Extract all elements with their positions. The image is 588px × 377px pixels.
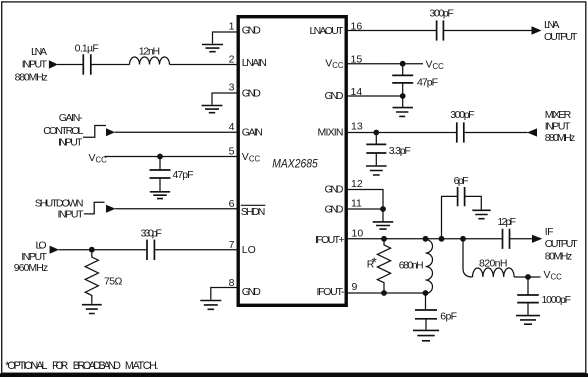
svg-text:6: 6 — [229, 198, 235, 210]
wire C8 to ground — [465, 196, 482, 209]
svg-text:*OPTIONAL: *OPTIONAL — [5, 360, 47, 372]
wire C11 to ground — [527, 303, 529, 315]
capacitor C9 6pF — [415, 310, 437, 319]
svg-text:GND: GND — [242, 286, 261, 298]
capacitor C1 0.1uF — [83, 54, 91, 74]
wire L1 to pin 2 LNAIN — [170, 64, 239, 66]
node L3 Vcc junction — [525, 274, 531, 280]
svg-text:47pF: 47pF — [417, 76, 438, 88]
wire C6 branch down — [375, 133, 377, 145]
svg-text:9: 9 — [352, 281, 358, 293]
ground G4 (C2) — [150, 192, 170, 199]
ground G11 (C9) — [413, 330, 439, 340]
capacitor C3 330pF — [147, 240, 154, 260]
wire shutdown input to pin 6 — [84, 202, 238, 214]
wire pin11 GND — [346, 209, 383, 221]
capacitor C6 3.3pF — [366, 144, 386, 153]
svg-text:GAIN: GAIN — [242, 127, 263, 139]
svg-text:LNAIN: LNAIN — [242, 57, 267, 69]
wire C11 branch down — [527, 277, 529, 295]
svg-text:13: 13 — [351, 121, 363, 133]
svg-text:47pF: 47pF — [173, 169, 194, 181]
svg-text:MATCH.: MATCH. — [125, 360, 159, 372]
svg-text:LNAOUT: LNAOUT — [310, 25, 345, 37]
svg-text:INPUT: INPUT — [22, 59, 48, 71]
ground G10 (C11) — [516, 316, 540, 325]
svg-text:300pF: 300pF — [430, 7, 454, 19]
wire gain-control input to pin 4 — [83, 126, 238, 138]
svg-text:SHDN: SHDN — [241, 206, 265, 218]
svg-text:OUTPUT: OUTPUT — [544, 31, 578, 43]
ground G1 (pin 1) — [202, 45, 223, 52]
node IFOUT+ at R* — [381, 236, 387, 242]
ground G9 (C8) — [472, 210, 490, 218]
wire pin16 LNAOUT to C4 — [346, 30, 437, 32]
svg-text:GAIN-: GAIN- — [59, 112, 83, 124]
node IFOUT+ at 6pF branch — [439, 236, 445, 242]
svg-text:GND: GND — [325, 90, 344, 102]
svg-text:GND: GND — [325, 203, 344, 215]
overline SHDN — [241, 204, 265, 206]
node IFOUT+ at L2 — [423, 236, 429, 242]
svg-text:INPUT: INPUT — [21, 251, 47, 263]
svg-text:0.1µF: 0.1µF — [75, 43, 99, 55]
svg-text:14: 14 — [351, 86, 363, 98]
svg-text:IF: IF — [545, 226, 554, 238]
inductor L3 820nH — [473, 268, 515, 277]
wire pin13 MIXIN to C7 — [346, 132, 457, 134]
svg-text:*: * — [372, 255, 378, 270]
svg-text:300pF: 300pF — [450, 109, 474, 121]
arrow shutdown input — [106, 205, 116, 213]
node pin11 GND junction — [380, 206, 386, 212]
capacitor C7 300pF — [457, 122, 464, 142]
svg-text:820nH: 820nH — [479, 258, 508, 270]
wire pin12 GND — [346, 190, 383, 210]
capacitor C4 300pF — [437, 20, 444, 40]
arrow mixer input — [527, 128, 537, 136]
inductor L2 680nH — [426, 240, 433, 294]
node pin15 Vcc junction — [400, 61, 406, 67]
svg-text:LO: LO — [242, 244, 256, 256]
wire 6pF bottom branch — [425, 293, 427, 310]
resistor R1 R* — [377, 239, 390, 293]
svg-text:8: 8 — [229, 277, 235, 289]
svg-text:6pF: 6pF — [440, 311, 457, 323]
svg-text:IFOUT+: IFOUT+ — [315, 234, 345, 246]
wire Vcc to pin 5 — [105, 156, 239, 158]
ground G3 (pin 8) — [200, 301, 221, 310]
arrow LO input — [50, 246, 59, 254]
svg-text:INPUT: INPUT — [58, 137, 83, 149]
capacitor C5 47pF — [392, 75, 413, 83]
arrow LNA input — [49, 60, 58, 69]
ground G7 (C6) — [366, 166, 387, 175]
svg-text:80MHz: 80MHz — [545, 250, 573, 262]
svg-text:MIXIN: MIXIN — [318, 127, 344, 139]
wire C10 to IF output arrow — [510, 238, 533, 240]
svg-text:960MHz: 960MHz — [14, 262, 48, 274]
svg-text:12nH: 12nH — [139, 46, 160, 58]
svg-text:FOR: FOR — [52, 360, 68, 372]
svg-text:2: 2 — [229, 54, 235, 66]
svg-text:MIXER: MIXER — [545, 109, 572, 121]
svg-text:CONTROL: CONTROL — [43, 125, 83, 137]
svg-text:GND: GND — [325, 183, 344, 195]
svg-text:16: 16 — [351, 20, 363, 32]
wire C1 to L1 — [91, 64, 130, 66]
IC U1 MAX2685 body — [238, 17, 346, 306]
node IFOUT+ at 820nH branch — [460, 236, 466, 242]
svg-text:5: 5 — [229, 146, 235, 158]
wire pin15 Vcc to Vcc label — [346, 63, 423, 65]
svg-text:INPUT: INPUT — [545, 121, 571, 133]
svg-text:OUTPUT: OUTPUT — [545, 238, 579, 250]
svg-text:LNA: LNA — [31, 46, 47, 58]
arrow IF output — [532, 235, 542, 243]
svg-text:680nH: 680nH — [399, 259, 424, 271]
svg-text:MAX2685: MAX2685 — [272, 157, 318, 171]
svg-text:6pF: 6pF — [454, 175, 469, 187]
wire pin9 IFOUT- — [346, 292, 426, 294]
svg-text:7: 7 — [229, 239, 235, 251]
wire C5 to pin14 node — [402, 83, 404, 96]
wire 820nH branch down — [463, 239, 473, 277]
svg-text:LNA: LNA — [544, 19, 560, 31]
resistor R2 75ohm — [85, 250, 98, 304]
svg-text:1: 1 — [229, 21, 235, 33]
svg-text:4: 4 — [229, 121, 235, 133]
wire pin8 GND stub — [211, 288, 238, 300]
capacitor C11 1000pF — [517, 295, 539, 303]
node LO junction — [89, 247, 95, 253]
svg-text:3.3pF: 3.3pF — [389, 145, 411, 157]
capacitor C8 6pF — [458, 187, 465, 206]
node Vcc pin5 junction — [157, 154, 163, 160]
svg-text:1000pF: 1000pF — [542, 294, 572, 306]
wire L3 to Vcc label — [514, 276, 540, 278]
svg-text:GND: GND — [242, 87, 261, 99]
svg-text:LO: LO — [36, 240, 47, 252]
node IFOUT- at L2 — [423, 290, 429, 296]
wire C5 branch down — [402, 64, 404, 76]
node pin13 MIXIN junction — [373, 130, 379, 136]
capacitor C2 47pF — [150, 170, 171, 178]
svg-text:75Ω: 75Ω — [104, 275, 123, 287]
wire C3 to pin 7 LO — [154, 249, 238, 251]
svg-text:GND: GND — [242, 25, 261, 37]
svg-text:IFOUT-: IFOUT- — [317, 286, 346, 298]
svg-text:12pF: 12pF — [498, 216, 517, 228]
ground G2 (pin 3) — [202, 106, 223, 113]
svg-text:15: 15 — [351, 54, 363, 66]
wire C4 to LNA output arrow — [443, 30, 531, 32]
wire C2 to ground — [159, 178, 161, 191]
node pin14 GND junction — [400, 93, 406, 99]
wire pin14 GND — [346, 96, 403, 107]
ground G6 (pin 14) — [393, 108, 413, 117]
wire 6pF branch up — [442, 196, 458, 238]
wire C9 to ground — [425, 319, 427, 330]
wire pin3 GND stub — [212, 93, 238, 105]
svg-text:11: 11 — [351, 197, 362, 209]
ground G8 (pins 11-12) — [373, 222, 394, 229]
svg-text:10: 10 — [352, 227, 364, 239]
svg-text:12: 12 — [351, 178, 363, 190]
ground G5 (75ohm) — [82, 305, 102, 314]
svg-text:330pF: 330pF — [141, 227, 162, 239]
wire C7 to mixer input arrow — [464, 132, 528, 134]
wire pin10 IFOUT+ to C10 — [346, 238, 503, 240]
wire C6 to ground — [375, 153, 377, 165]
svg-text:880MHz: 880MHz — [545, 132, 576, 144]
node IFOUT- at R* — [381, 290, 387, 296]
wire pin1 GND stub — [213, 32, 239, 44]
wire LNA input to C1 — [58, 64, 84, 66]
svg-text:880MHz: 880MHz — [15, 72, 48, 84]
inductor L1 12nH — [130, 57, 170, 64]
svg-text:BROADBAND: BROADBAND — [73, 360, 121, 372]
svg-text:INPUT: INPUT — [58, 209, 85, 221]
svg-text:3: 3 — [229, 82, 235, 94]
capacitor C10 12pF — [503, 229, 510, 249]
wire C2 branch down — [159, 157, 161, 171]
arrow gain-control input — [106, 128, 115, 136]
wire LO input to C3 — [59, 249, 148, 251]
svg-text:SHUTDOWN: SHUTDOWN — [35, 198, 84, 210]
arrow LNA output — [532, 26, 542, 34]
